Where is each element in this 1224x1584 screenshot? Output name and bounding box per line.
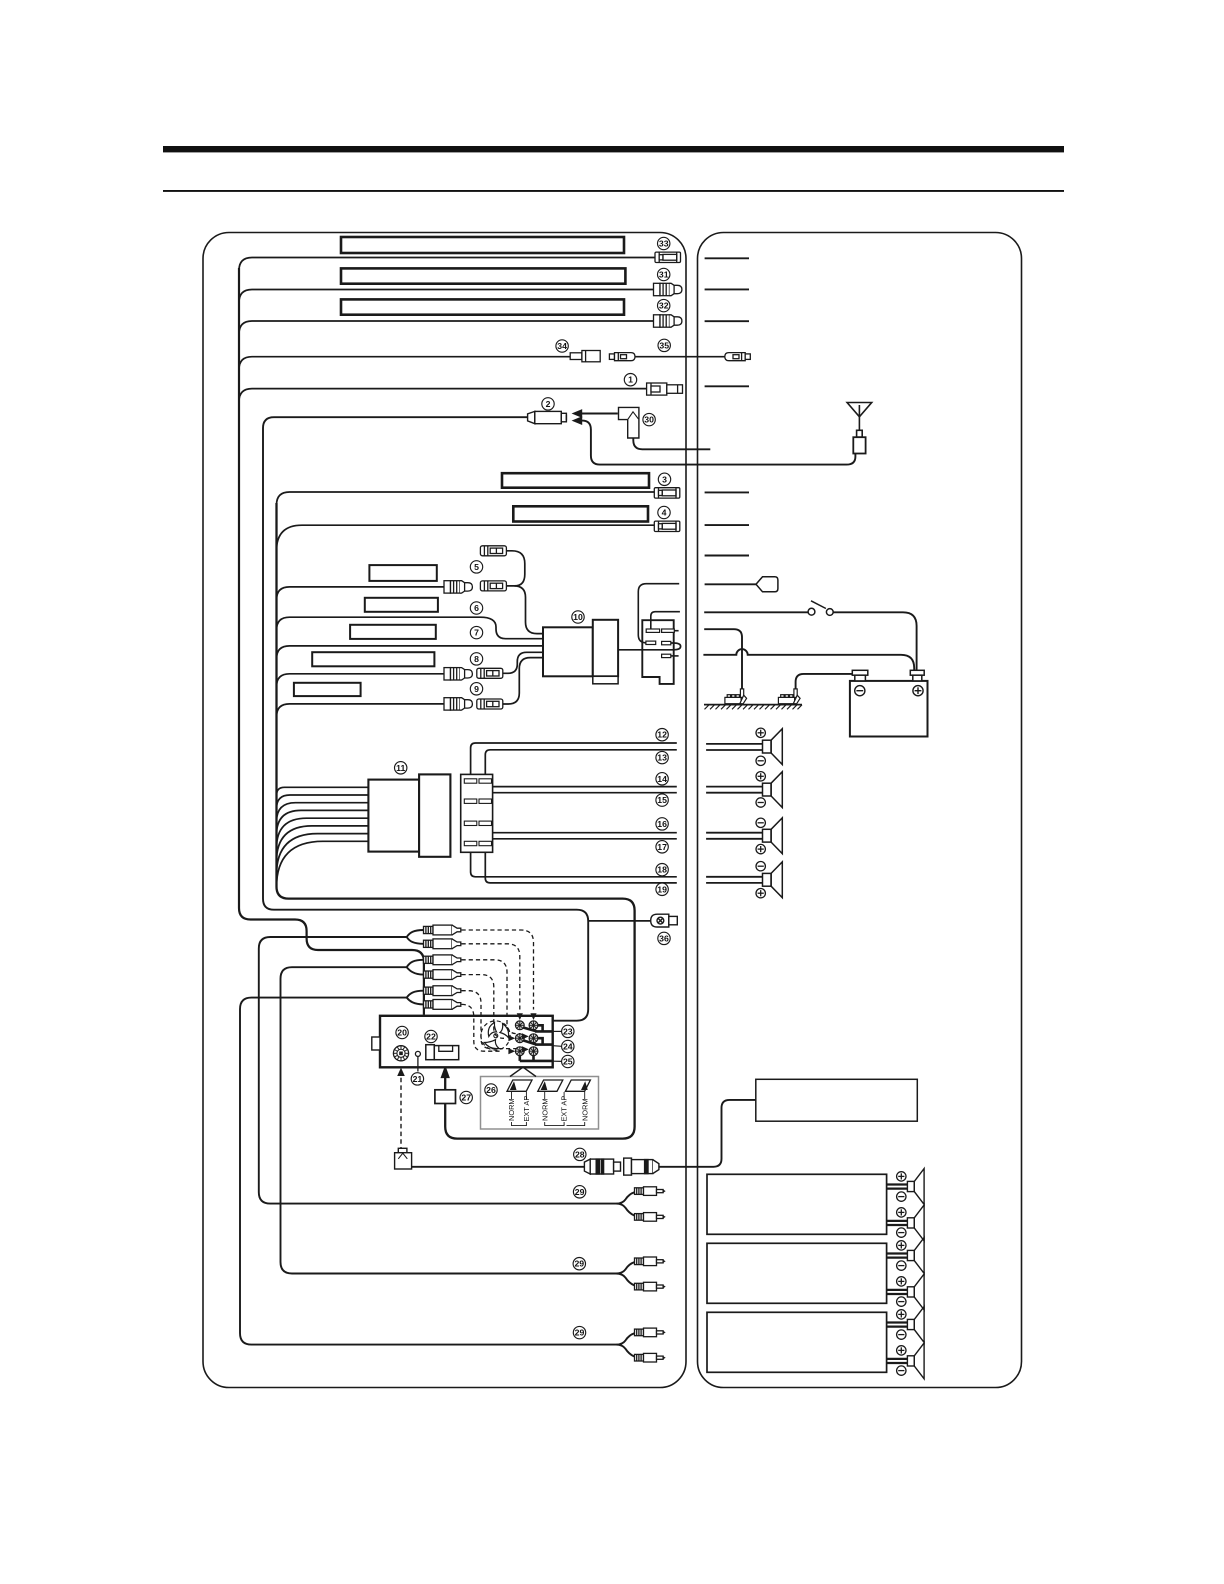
harness fan wire c [277,803,369,822]
extension connector 28 female [584,1159,620,1174]
subwoofer label box [756,1079,918,1121]
spade 8 [444,668,472,680]
amp1 sp1 minus [897,1192,906,1201]
arrow into jack A3 [508,1048,515,1054]
svg-text:NORM: NORM [580,1098,589,1121]
label 4 [658,506,670,518]
aux cable 2 run (to 29b) [281,967,617,1273]
arrow into jack B1 [530,1013,536,1020]
speaker 4 [763,862,783,898]
label 2 [542,398,554,410]
svg-text:29: 29 [575,1187,585,1197]
svg-text:32: 32 [659,301,669,311]
battery minus symbol [855,686,865,696]
wire 9 [277,704,445,717]
label 29b [573,1258,585,1270]
wire 14 [493,786,677,788]
lead from connector 10 to fuse block (U-turn) [618,643,681,650]
amp1 sp2 plus [897,1208,906,1217]
svg-text:18: 18 [657,865,667,875]
connector 32 [654,315,682,327]
svg-text:NORM: NORM [540,1098,549,1121]
label box row 6 [365,598,438,612]
accessory stub to pin L2 [638,584,679,643]
aux RCA plug 5 [424,986,461,996]
svg-text:33: 33 [659,239,669,249]
aux cable 1 run (to 29a) [259,937,616,1204]
arrow into jack B2 [522,1033,529,1039]
left unit panel [203,233,686,1388]
label 15 [656,794,668,806]
reel symbol [481,1021,510,1050]
main lead bundle vertical (wires 33,31,32,34,1) [239,268,424,1015]
connector 10 main box [543,627,593,676]
wire 5 [277,587,445,600]
harness fan wire a [277,787,369,795]
label box row 32 [341,299,624,314]
aux pair 3 tails [407,991,424,1005]
label 7 [470,626,482,638]
svg-text:16: 16 [657,819,667,829]
connector 35 left [609,353,635,361]
amp2 speaker wires [887,1252,908,1254]
label box row 3 [502,473,649,488]
harness fan wire f [277,826,369,862]
pin block pins [464,779,491,846]
fuse barrel upper [480,546,506,556]
right-angle plug of antenna patch [395,1148,412,1169]
svg-text:10: 10 [573,612,583,622]
speaker 3 minus [756,818,765,827]
svg-text:14: 14 [657,774,667,784]
svg-text:30: 30 [644,415,654,425]
wire 1 [239,389,647,402]
harness fan wire b [277,795,369,809]
reset hole 21 [415,1051,420,1071]
speaker1 wires [706,743,762,745]
label 16 [656,818,668,830]
wire 3 [277,492,655,505]
svg-text:23: 23 [563,1026,573,1036]
speaker 2 [763,772,783,808]
connector 10 tall box [593,620,618,684]
svg-text:19: 19 [657,884,667,894]
svg-text:28: 28 [575,1149,585,1159]
svg-text:31: 31 [659,270,669,280]
amp1 speaker 1 [907,1169,924,1205]
label 33 [658,237,670,249]
label 10 [572,611,584,623]
amp3 sp1 minus [897,1330,906,1339]
label box row 4 [513,506,648,521]
svg-text:34: 34 [557,341,567,351]
amp2 sp1 plus [897,1241,906,1250]
label 22 [425,1030,437,1042]
mini plug 29b upper [635,1257,666,1266]
connector 11 right shell [419,774,450,856]
svg-text:29: 29 [574,1259,584,1269]
label 12 [656,729,668,741]
fuse block pins [646,629,674,658]
top thick rule [163,146,1064,152]
amp3 sp2 plus [897,1346,906,1355]
amp1 sp2 minus [897,1228,906,1237]
wire 9 barrel tail [503,658,543,704]
switch icon 3 [565,1080,590,1091]
speaker 4 minus [756,862,765,871]
label box row 31 [341,268,625,283]
switch icon 2 [538,1080,563,1091]
lead to label 24 [553,1045,562,1048]
label 34 [556,340,568,352]
speaker 1 [763,729,783,765]
svg-text:36: 36 [659,933,669,943]
antenna plug 30 [619,407,639,438]
arrow into rear panel (wire 27 lead) [441,1067,449,1078]
jack bracket row 1 [524,1025,553,1031]
svg-text:22: 22 [426,1032,436,1042]
vehicle stub 3 [705,491,749,493]
connector 11 left shell [368,780,419,852]
speaker 4 plus [756,889,765,898]
switch fork lines [512,1092,585,1099]
label box row 7 [350,625,436,639]
harness fan wire g [277,834,369,875]
dashed route 3 [462,960,521,1034]
battery [850,670,928,736]
tagged lead [705,583,756,585]
antenna jack 20 [393,1046,408,1061]
svg-text:29: 29 [575,1328,585,1338]
connector 33 [655,252,681,262]
harness fan wire d [277,810,369,835]
harness fan wire e [277,818,369,848]
connector 34 [570,351,600,362]
label 30 [643,413,655,425]
bus connector box 27 [435,1090,456,1104]
connector 4 [654,521,680,531]
connector 36 [651,914,678,927]
amp2 sp2 plus [897,1277,906,1286]
rear panel side tab [372,1037,380,1050]
arrow into jack A1 [517,1013,523,1020]
barrel 8 [477,668,503,678]
label 25 [562,1055,574,1067]
switch contacts [808,601,833,616]
svg-text:5: 5 [474,562,479,572]
switch bottom brackets [512,1122,585,1126]
svg-text:35: 35 [659,340,669,350]
label 26 [485,1084,497,1096]
switch inset box 26 [481,1077,599,1130]
wire 7 [277,646,544,659]
svg-text:12: 12 [657,730,667,740]
wire 31 [239,290,655,303]
label box row 8 [312,652,434,666]
label 31 [658,268,670,280]
amp1 speaker 1 wires [887,1185,908,1226]
lead to label 25 [553,1060,562,1062]
wire to connector 36 [588,920,651,922]
fuse barrel lower [480,581,506,591]
wire 8 barrel tail [503,652,543,673]
label box row 9 [294,683,361,696]
label 14 [656,773,668,785]
aux RCA plug 1 [424,925,461,935]
amp1 sp1 plus [897,1172,906,1181]
svg-text:1: 1 [628,375,633,385]
switch icon 1 [507,1080,532,1091]
ground lug B [778,689,800,704]
wire 8 [277,674,445,687]
amp2 sp1 minus [897,1261,906,1270]
svg-text:6: 6 [474,603,479,613]
dashed route 4 [462,975,505,1039]
tag [756,577,778,592]
vehicle stub 35 row [705,385,749,387]
speaker 2 minus [756,798,765,807]
dashed route 5 [462,991,517,1049]
svg-text:13: 13 [657,753,667,763]
wire 32 [239,321,655,334]
fuse block pin stub R3 [671,655,679,657]
speaker4 wires [706,876,762,878]
vehicle stub 33 [705,257,749,259]
extension connector 28 male [624,1158,659,1175]
svg-text:3: 3 [662,474,667,484]
mini plug 29b lower [635,1282,666,1291]
vehicle stub 31 [705,288,749,290]
amp3 speaker 2 [907,1343,924,1379]
svg-text:9: 9 [474,684,479,694]
cable 28 right run [659,1100,756,1167]
svg-text:11: 11 [396,763,405,773]
aux RCA plug 2 [424,939,461,949]
label 23 [562,1025,574,1037]
amp3 speaker wires [887,1321,908,1323]
amp3 sp2 minus [897,1366,906,1375]
arrow into jack B3 [522,1046,529,1052]
amp2 sp2 minus [897,1297,906,1306]
arrow into jack 20 [397,1068,405,1076]
battery minus lead [796,674,853,689]
fuse block feed stub top [651,612,680,629]
car antenna mast [847,403,872,454]
right vehicle panel [698,233,1022,1388]
amp3 sp1 plus [897,1310,906,1319]
wire 6 [277,617,544,639]
antenna socket 2 [528,411,567,423]
speaker 2 plus [756,772,765,781]
ground lug A [725,689,747,704]
mini plug 29a upper [635,1187,666,1196]
label 3 [658,473,670,485]
label box row 5 [369,565,436,581]
spade 9 [444,698,472,710]
jack hatches [516,1021,524,1029]
svg-text:2: 2 [546,399,551,409]
harness fan wire h [277,841,369,887]
battery plus lead with hop [703,649,914,670]
vehicle pin block [461,774,493,852]
aux RCA plug 3 [424,955,461,965]
wire 33 [239,258,655,271]
label 21 [411,1073,423,1085]
svg-text:NORM: NORM [507,1098,516,1121]
wire 2 (antenna socket lead) [263,417,588,1021]
amp2 speaker 2 [907,1274,924,1310]
svg-text:27: 27 [461,1093,471,1103]
cable 29b fork [616,1262,634,1285]
mini plug 29c upper [635,1328,666,1337]
aux RCA plug 4 [424,970,461,980]
speaker 1 plus [756,728,765,737]
label 29a [573,1186,585,1198]
label box row 33 [341,237,624,253]
jack bracket row 3 [520,1056,553,1061]
vehicle stub 5 [705,555,749,557]
insertion arrow upper [573,410,618,418]
label 13 [656,751,668,763]
cable 29a fork [616,1192,634,1215]
fuse block housing [642,620,673,684]
label 5 [470,561,482,573]
wire 17 [493,838,677,840]
svg-text:EXT AP: EXT AP [522,1096,531,1122]
label 19 [656,883,668,895]
label 24 [562,1040,574,1052]
wire 19 [485,852,677,883]
dashed antenna patch lead [400,1070,402,1149]
svg-text:25: 25 [563,1057,573,1067]
arrow into jack A2 [508,1035,515,1041]
svg-text:EXT AP: EXT AP [560,1096,569,1122]
connector 3 [654,488,680,498]
label 8 [470,653,482,665]
chassis ground hatched line [704,705,802,710]
mini plug 29a lower [635,1213,666,1222]
fuse lead lower tail into connector 10 [506,586,543,634]
aux pair 2 tails [407,960,424,975]
label 1 [624,374,636,386]
wire 4 [277,525,655,551]
wire 34 [239,357,570,370]
svg-text:21: 21 [413,1074,423,1084]
aux cable 3 run (to 29c) [240,998,616,1345]
preout jacks 23/24/25 [515,1021,538,1056]
label 17 [656,841,668,853]
wire 18 [471,852,677,877]
svg-text:20: 20 [397,1028,407,1038]
cable 29c fork [616,1333,634,1356]
connector 35 right mate [725,353,751,361]
speaker2 wires [706,786,762,788]
wire 35 [635,356,725,358]
svg-text:7: 7 [474,628,479,638]
label 6 [470,602,482,614]
dashed route 6 [462,1004,501,1051]
wire 16 [493,832,677,834]
svg-text:24: 24 [563,1042,573,1052]
spade 5 [444,581,472,593]
speaker 3 plus [756,844,765,853]
label 35 [658,339,670,351]
amplifier box 2 [707,1243,887,1303]
speaker3 wires [706,832,762,834]
label 28 [574,1148,586,1160]
label 11 [395,762,407,774]
ground lead (unit black wire) [704,629,742,689]
wire from plug 30 [633,438,710,449]
aux pair 1 tails [407,930,424,944]
ignition switch lead [704,612,916,670]
wire 12 [471,743,677,774]
amplifier box 1 [707,1174,887,1234]
label 9 [470,683,482,695]
cable 28 left run [412,1166,585,1168]
amp3 speaker 1 [907,1307,924,1343]
label 27 [460,1091,472,1103]
jack bracket row 2 [524,1038,553,1044]
top thin rule [163,190,1064,192]
amp1 speaker 2 wires [887,1220,908,1222]
battery plus symbol [913,686,923,696]
fuse block pin stub R1 [674,630,678,632]
speaker 1 minus [756,756,765,765]
svg-text:17: 17 [657,842,667,852]
harness bundle vertical (wires 3,5-9 + fan) [277,503,635,1139]
label 32 [658,299,670,311]
label 18 [656,864,668,876]
speaker 3 [763,818,783,854]
label 20 [396,1026,408,1038]
dashed route 2 [462,944,520,1010]
inset pointer [510,1067,536,1076]
barrel 9 [477,699,503,709]
mini plug 29c lower [635,1353,666,1362]
rear panel box [380,1016,553,1068]
svg-text:26: 26 [486,1085,496,1095]
label 36 [658,932,670,944]
svg-text:4: 4 [662,508,667,518]
wire 15 [493,792,677,794]
vehicle stub 4 [705,524,749,526]
insertion arrow lower / antenna feed wire [573,417,856,465]
dashed route 1 [462,930,534,1010]
fuse lead upper barrel tail [506,551,524,586]
vehicle stub 32 [705,320,749,322]
aux RCA plug 6 [424,1000,461,1010]
svg-text:8: 8 [474,654,479,664]
connector 31 [654,283,682,295]
connector 1 [647,383,683,395]
wire 13 [485,750,677,775]
connector port 22 [426,1045,459,1060]
svg-text:15: 15 [657,795,667,805]
lead to label 23 [553,1030,562,1032]
label 29c [573,1326,585,1338]
amp1 speaker 2 [907,1205,924,1241]
amplifier box 3 [707,1312,887,1372]
amp2 speaker 1 [907,1238,924,1274]
